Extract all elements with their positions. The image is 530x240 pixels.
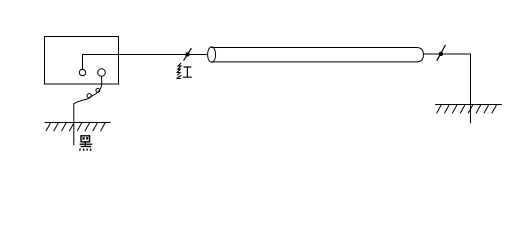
junction dot red lead xyxy=(185,52,189,56)
coiled black test lead from terminal E xyxy=(74,76,102,103)
left ground hatching xyxy=(46,123,105,131)
wire down into left ground xyxy=(73,104,75,145)
cable body top line xyxy=(212,47,417,49)
cable right rounded cap xyxy=(417,48,423,62)
right ground surface line xyxy=(436,104,502,106)
junction dot right lead xyxy=(439,52,443,56)
left ground surface line xyxy=(45,122,110,124)
wire from terminal L up and right to cable xyxy=(83,55,208,70)
terminal L (left circle) xyxy=(79,69,85,75)
wire down to right ground xyxy=(470,54,472,123)
right ground hatching xyxy=(437,105,497,113)
cable body bottom line xyxy=(212,61,417,63)
label 黑 (black) drawn as strokes xyxy=(80,136,93,151)
clip slash at red lead xyxy=(184,49,191,61)
coil loop 1 xyxy=(96,89,100,93)
terminal E (right circle) xyxy=(98,69,106,77)
coil loop 2 xyxy=(87,94,91,98)
megohmmeter box xyxy=(45,37,119,85)
label 红 (red) drawn as strokes xyxy=(177,63,191,78)
cable left end ellipse xyxy=(208,47,216,62)
wire from cable right end to corner xyxy=(423,53,470,55)
clip slash at right lead xyxy=(437,45,445,60)
